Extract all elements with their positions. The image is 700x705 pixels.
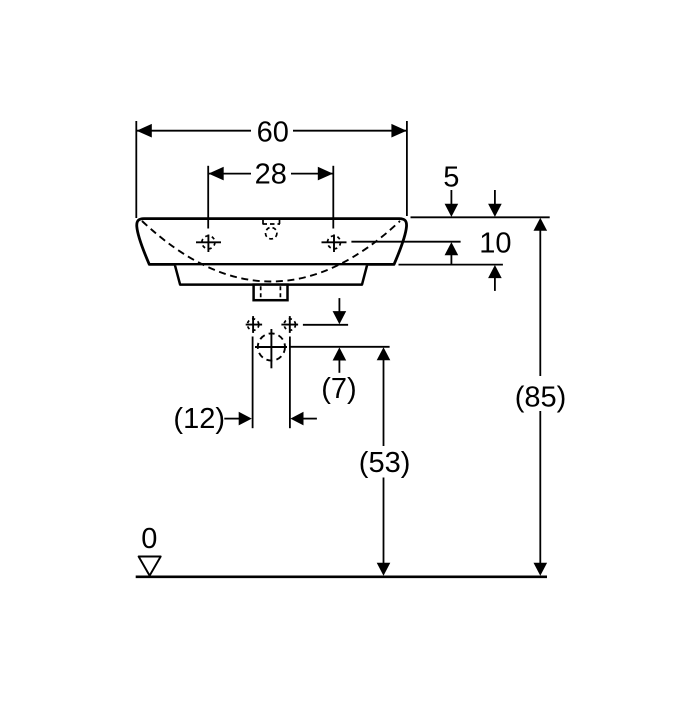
dimension 28: right arrowhead	[318, 167, 333, 181]
washbasin lower apron trapezoid	[175, 265, 367, 284]
dimension (7): reference line	[290, 346, 390, 348]
dimension 10: lower arrow (up)	[494, 276, 496, 291]
basin bottom level reference line	[399, 264, 503, 266]
dimension (53): bottom arrowhead (down)	[377, 563, 391, 576]
overflow notch ticks	[262, 220, 264, 224]
washbasin outer outline	[137, 219, 407, 265]
drain outlet rectangle	[254, 285, 288, 301]
right water supply crosshair	[281, 316, 298, 333]
dimension (85): top arrowhead (up)	[534, 218, 548, 231]
dimension 60: right extension line	[406, 121, 408, 216]
svg-text:(12): (12)	[173, 403, 225, 435]
water supply level arrow (down)	[338, 298, 340, 313]
right tap hole crosshair	[322, 235, 347, 253]
svg-text:(85): (85)	[515, 381, 567, 413]
dimension 28: left extension line	[207, 166, 209, 229]
dimension 60: right arrowhead	[391, 124, 406, 138]
dimension (53): vertical line upper segment	[383, 359, 385, 447]
ground line	[136, 575, 547, 578]
tap hole level reference line	[351, 241, 460, 243]
svg-text:(53): (53)	[359, 447, 411, 479]
svg-text:(7): (7)	[321, 373, 356, 405]
dimension (7): arrow (up)	[338, 359, 340, 373]
drain trap dashed circle	[258, 333, 285, 360]
drain trap crosshair horizontal	[255, 346, 287, 348]
dimension 28: right extension line	[332, 166, 334, 229]
water supply level reference line	[303, 324, 348, 326]
basin interior bowl dashed curve	[142, 221, 400, 282]
dimension 60: line	[136, 130, 251, 132]
drain trap crosshair vertical	[270, 329, 272, 368]
drain outlet hidden lines	[260, 286, 262, 299]
dimension (53): vertical line lower segment	[383, 478, 385, 564]
faucet hole hidden dashed circle	[266, 228, 277, 239]
dimension (12): left extension line	[252, 337, 254, 429]
svg-text:10: 10	[479, 227, 511, 259]
overflow hidden bottom dashed line	[263, 223, 281, 225]
dimension (85): vertical line lower segment	[539, 411, 541, 563]
rim level reference line (top)	[411, 216, 550, 218]
dimension (12): left arrow (pointing right)	[224, 418, 240, 420]
dimension 60: left extension line	[135, 121, 137, 218]
dimension 28: line	[208, 173, 251, 175]
dimension (12): right extension line	[289, 337, 291, 429]
svg-text:60: 60	[257, 117, 289, 149]
dimension (53): top arrowhead (up)	[377, 347, 391, 360]
dimension (12): right arrow (pointing left)	[304, 418, 317, 420]
dimension (85): bottom arrowhead (down)	[534, 563, 548, 576]
left water supply crosshair	[246, 316, 262, 333]
dimension 60: left arrowhead	[137, 124, 152, 138]
svg-text:5: 5	[443, 161, 459, 193]
ground datum triangle	[139, 557, 161, 576]
dimension (85): vertical line upper segment	[539, 229, 541, 376]
dimension 28: left arrowhead	[209, 167, 224, 181]
left tap hole crosshair	[196, 235, 221, 253]
dimension 5: upper arrow (down)	[450, 190, 452, 206]
dimension 10: upper arrow (down)	[494, 190, 496, 206]
svg-text:0: 0	[141, 523, 157, 555]
svg-text:28: 28	[255, 159, 287, 191]
dimension 5: lower arrow (up)	[450, 253, 452, 265]
